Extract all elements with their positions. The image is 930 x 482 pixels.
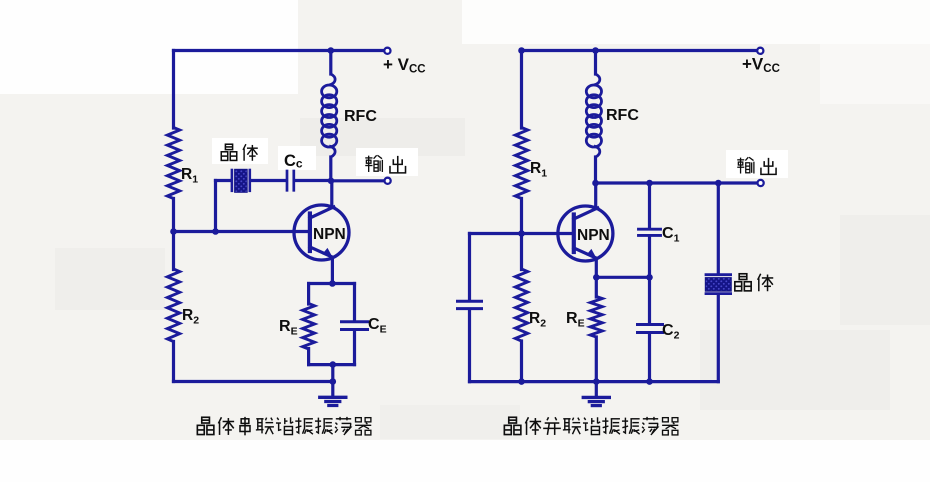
resistor R1 (right) bbox=[515, 128, 527, 199]
terminal: output right bbox=[758, 180, 764, 186]
wire: C1 top lead bbox=[648, 183, 651, 228]
transistor Q1 NPN (left) bbox=[294, 205, 349, 260]
node: emitter junction left bbox=[329, 280, 336, 287]
wire: output line right bbox=[596, 181, 758, 184]
wire: crystal branch riser bbox=[214, 181, 217, 232]
wire: emitter line to C1/C2 column bbox=[596, 276, 649, 279]
capacitor C2 bbox=[638, 323, 663, 326]
capacitor C1 bbox=[639, 228, 661, 231]
node: crystal tap on output line bbox=[715, 180, 722, 187]
wire: loop bottom to ground rail bbox=[331, 365, 334, 382]
svg-text:NPN: NPN bbox=[577, 227, 610, 244]
capacitor CE bbox=[342, 320, 368, 323]
wire: RFC top lead left bbox=[329, 51, 332, 75]
terminal: output left bbox=[385, 178, 391, 184]
node: base junction right bbox=[518, 230, 525, 237]
wire: right-left vertical (R2 to bottom) bbox=[520, 341, 523, 382]
resistor R1 (left) bbox=[167, 128, 179, 199]
caption: 晶体串联谐振振荡器 bbox=[197, 417, 214, 434]
node: right rail / RFC junction bbox=[592, 47, 599, 54]
wire: right bottom rail bbox=[470, 380, 719, 383]
wire: RE/CE loop top bbox=[309, 282, 355, 285]
node: left rail / RFC junction bbox=[328, 47, 335, 54]
wire: RFC to collector node bbox=[329, 157, 332, 181]
ground (right circuit) bbox=[595, 382, 598, 397]
wire: RFC to output node right bbox=[594, 157, 597, 183]
wire: left top supply rail bbox=[174, 49, 384, 52]
svg-text:RFC: RFC bbox=[606, 107, 639, 124]
wire: right top supply rail bbox=[522, 49, 757, 52]
node: C2 bottom rail junction bbox=[646, 378, 653, 385]
wire: output left bbox=[331, 179, 384, 182]
wire: emitter lead left transistor bbox=[331, 258, 334, 284]
node: base junction on left vertical bbox=[170, 228, 177, 235]
wire: RE top lead right bbox=[595, 277, 598, 297]
wire: base wire right circuit bbox=[470, 232, 574, 235]
label 输出 (left) bbox=[365, 155, 382, 172]
resistor R2 (left) bbox=[167, 269, 179, 342]
wire: crystal branch lower right bbox=[717, 295, 720, 382]
node: collector/output junction left bbox=[328, 178, 335, 185]
wire: collector lead left transistor bbox=[330, 181, 333, 208]
wire: crystal branch upper right bbox=[717, 183, 720, 274]
svg-text:NPN: NPN bbox=[313, 226, 346, 243]
wire: C2 top lead bbox=[648, 277, 651, 323]
svg-text:RFC: RFC bbox=[344, 108, 377, 125]
wire: right-left vertical (R1 to R2) bbox=[520, 199, 523, 270]
terminal: +Vcc right bbox=[757, 48, 763, 54]
wire: collector lead right transistor bbox=[594, 183, 597, 209]
inductor RFC (left) bbox=[329, 74, 335, 85]
wire: RE bottom lead right bbox=[595, 337, 598, 382]
wire: right-left vertical (rail to R1) bbox=[520, 51, 523, 129]
node: ground junction right bbox=[593, 378, 600, 385]
node: right rail left corner bbox=[518, 47, 525, 54]
wire: base wire left circuit bbox=[174, 230, 311, 233]
label 输出 (right) bbox=[737, 157, 754, 173]
wire: RE/CE loop bottom bbox=[309, 363, 355, 366]
node: ground junction left bbox=[330, 378, 337, 385]
capacitor Cc bbox=[286, 171, 289, 190]
crystal Y1 (series, left circuit) bbox=[231, 170, 234, 191]
wire: left vertical (top rail to R1) bbox=[172, 51, 175, 129]
resistor R2 (right) bbox=[515, 269, 527, 341]
wire: C2 bottom lead bbox=[648, 334, 651, 382]
ground (left circuit) bbox=[331, 382, 334, 397]
wire: RFC top lead right bbox=[594, 51, 597, 75]
wire: CE branch leads bbox=[353, 284, 356, 321]
label 晶体 (left crystal) bbox=[221, 144, 236, 160]
node: collector/output junction right bbox=[592, 180, 599, 187]
node: emitter junction right bbox=[593, 274, 600, 281]
wire: emitter lead right transistor bbox=[595, 259, 598, 278]
capacitor C3 (feedback, unlabeled) bbox=[458, 300, 482, 303]
node: bottom rail junction at R2 bbox=[518, 378, 525, 385]
wire: left bottom rail bbox=[174, 380, 334, 383]
wire: left vertical (R2 to bottom rail) bbox=[172, 342, 175, 382]
caption: 晶体并联谐振振荡器 bbox=[504, 417, 521, 434]
wire: left vertical (R1 to R2) bbox=[172, 199, 175, 270]
resistor RE (left) bbox=[303, 304, 315, 350]
node: loop bottom center bbox=[330, 361, 337, 368]
wire: C1 bottom lead bbox=[648, 237, 651, 278]
wire: RE branch leads bbox=[307, 284, 310, 305]
wire: feedback capacitor branch lower bbox=[468, 310, 471, 382]
node: crystal branch tap bbox=[212, 228, 219, 235]
terminal: +Vcc left bbox=[384, 48, 390, 54]
wire: feedback capacitor branch upper bbox=[468, 234, 471, 301]
inductor RFC (right) bbox=[594, 74, 600, 85]
wire: crystal to Cc bbox=[251, 179, 286, 182]
crystal Y2 (parallel, right circuit) bbox=[706, 273, 731, 276]
label 晶体 (right crystal) bbox=[735, 274, 751, 291]
resistor RE (right) bbox=[590, 297, 602, 338]
node: C1/C2 junction bbox=[646, 274, 653, 281]
wire: Cc to collector node bbox=[295, 179, 331, 182]
node: C1 tap on output line bbox=[646, 180, 653, 187]
transistor Q2 NPN (right) bbox=[558, 206, 613, 261]
